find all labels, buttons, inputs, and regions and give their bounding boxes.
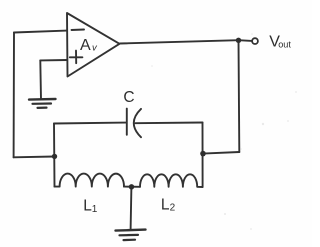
op-amp U1 xyxy=(67,13,120,77)
wire: feedback to inverting input xyxy=(14,31,67,33)
svg-text:out: out xyxy=(278,39,291,49)
wire: non-inverting input horizontal xyxy=(40,59,67,61)
wire: right outer vertical xyxy=(238,40,241,152)
capacitor C left plate xyxy=(126,109,128,135)
inductor L2 xyxy=(140,174,203,187)
wire: tank top-left segment xyxy=(54,122,126,125)
inductor L1 xyxy=(55,174,124,187)
wire: non-inverting branch down to ground xyxy=(39,60,42,99)
ground (inductor center tap) xyxy=(116,230,146,241)
node: tank right junction xyxy=(200,151,206,157)
svg-text:L: L xyxy=(161,197,170,214)
wire: op-amp output to output node xyxy=(120,40,239,43)
node: tank left junction xyxy=(52,154,57,159)
output terminal circle xyxy=(252,38,258,44)
node: inductor center tap xyxy=(129,184,134,189)
op-amp U1 non-inverting input marker (plus) xyxy=(70,51,83,64)
wire: left feedback vertical xyxy=(13,33,15,158)
capacitor C curved plate xyxy=(134,109,141,137)
wire: output node to terminal circle xyxy=(239,39,253,42)
wire: tank top-right segment xyxy=(135,122,202,125)
svg-text:v: v xyxy=(92,42,98,53)
op-amp U1 inverting input marker (minus) xyxy=(72,29,85,32)
svg-text:1: 1 xyxy=(92,204,98,215)
wire: tank left edge xyxy=(53,124,56,187)
wire: center tap down to ground xyxy=(130,187,133,230)
wire: tank right edge xyxy=(202,123,204,188)
node: output junction xyxy=(236,38,241,43)
svg-text:A: A xyxy=(80,37,91,54)
wire: right outer horizontal to node xyxy=(203,152,239,154)
ground (non-inverting input) xyxy=(29,99,56,108)
svg-text:2: 2 xyxy=(170,202,176,213)
wire: inductor center segment xyxy=(124,186,140,188)
svg-text:C: C xyxy=(123,89,134,106)
wire: bottom-left horizontal to node xyxy=(14,156,55,159)
